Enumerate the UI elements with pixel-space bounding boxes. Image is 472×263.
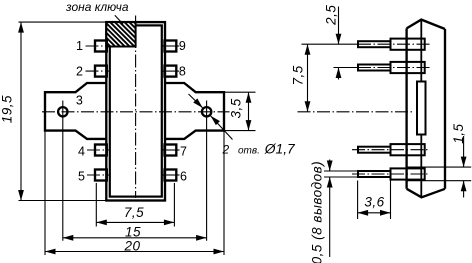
svg-text:1,5: 1,5 [451,123,466,143]
dimension 7,5 extensions [96,183,174,227]
svg-text:3,6: 3,6 [364,195,384,210]
hole note text [222,141,297,156]
dimension 3,5 extensions [224,92,256,130]
pin 7 [163,145,180,156]
hole leader lower arrow and tail [211,116,233,140]
side pin row 2 [334,62,431,73]
dimension 19,5 text [0,95,14,123]
svg-text:8: 8 [179,65,186,79]
dimension 3,6 extensions [358,177,391,219]
pin 7 label [180,144,187,158]
dimension 2,5 text [323,5,338,26]
svg-text:9: 9 [179,39,186,53]
svg-text:2,5: 2,5 [323,5,338,26]
svg-text:20: 20 [123,238,140,253]
svg-text:3: 3 [76,93,83,107]
dimension 0,5 line [327,160,333,258]
front view: body outer outline [106,22,165,200]
svg-text:3,5: 3,5 [228,98,243,118]
dimension 15 text [125,224,141,239]
dimension 7,5 side text [291,65,306,85]
svg-text:4: 4 [78,144,85,158]
svg-text:7,5: 7,5 [124,205,144,220]
pin 3 label (tab) [76,93,83,107]
key zone leader line [115,15,123,24]
horizontal centerline through holes [42,111,230,113]
dimension 20 line [45,249,224,255]
dimension 19,5 extension bottom [19,200,108,202]
dimension 0,5 text [310,161,325,263]
dimension 3,5 text [228,98,243,118]
pin 2 [86,66,110,77]
side view: centerline [298,111,414,113]
side pin row 4 [324,168,430,179]
left hole [58,107,67,116]
front view: body inner outline [110,25,162,196]
right hole [202,107,211,116]
dimension 19,5 line [18,22,24,200]
dimension 3,6 text [364,195,384,210]
key zone hatched area [106,22,135,46]
pin 8 [163,66,180,77]
svg-text:0,5 (8 выводов): 0,5 (8 выводов) [310,161,325,263]
dimension 7,5 side line [305,44,311,112]
svg-text:15: 15 [125,224,141,239]
pin 8 label [179,65,186,79]
pin 1 [86,41,110,52]
svg-text:19,5: 19,5 [0,95,14,123]
pin 9 label [179,39,186,53]
svg-text:6: 6 [180,169,187,183]
side view: body right edge [444,29,446,189]
side view: body left edge [405,28,407,188]
right mounting tab [165,83,225,139]
vertical centerline of body [135,16,137,199]
dimension 7,5 line [96,220,174,226]
left mounting tab [45,83,107,139]
side pin row 3 [352,144,430,155]
pin 5 label [78,169,85,183]
pin 5 [87,170,109,181]
key zone text [65,0,129,14]
svg-text:1: 1 [76,39,83,53]
pin 2 label [76,65,83,79]
dimension 1,5 extensions [407,167,472,181]
dimension 3,5 line [246,92,252,130]
dimension 15 line [63,235,207,241]
dimension 19,5 extension top [19,21,108,23]
dimension 1,5 line [461,136,467,198]
right hole vertical axis / extension for dim 15 [206,101,208,241]
side view: tab seen edge-on [417,82,426,135]
dimension 3,6 line [358,210,391,216]
svg-text:7,5: 7,5 [291,65,306,85]
pin 4 [87,145,109,156]
side view: bottom taper [407,189,445,198]
dimension 20 extensions [45,131,224,255]
pin 4 label [78,144,85,158]
pin 6 [163,170,180,181]
side view: ridge line [420,20,422,198]
pin 9 [163,41,180,52]
pin 1 label [76,39,83,53]
left hole vertical axis / extension for dim 15 [62,101,64,241]
dimension 1,5 text [451,123,466,143]
hole leader upper arrow [189,94,203,108]
svg-text:2: 2 [76,65,83,79]
pin 6 label [180,169,187,183]
dimension 7,5 text [124,205,144,220]
side view: top peak [407,20,445,29]
dimension 2,5 line [336,7,342,80]
side pin row 1 [302,39,431,50]
svg-text:5: 5 [78,169,85,183]
svg-text:зона ключа: зона ключа [65,0,129,14]
svg-text:7: 7 [180,144,187,158]
dimension 20 text [123,238,140,253]
